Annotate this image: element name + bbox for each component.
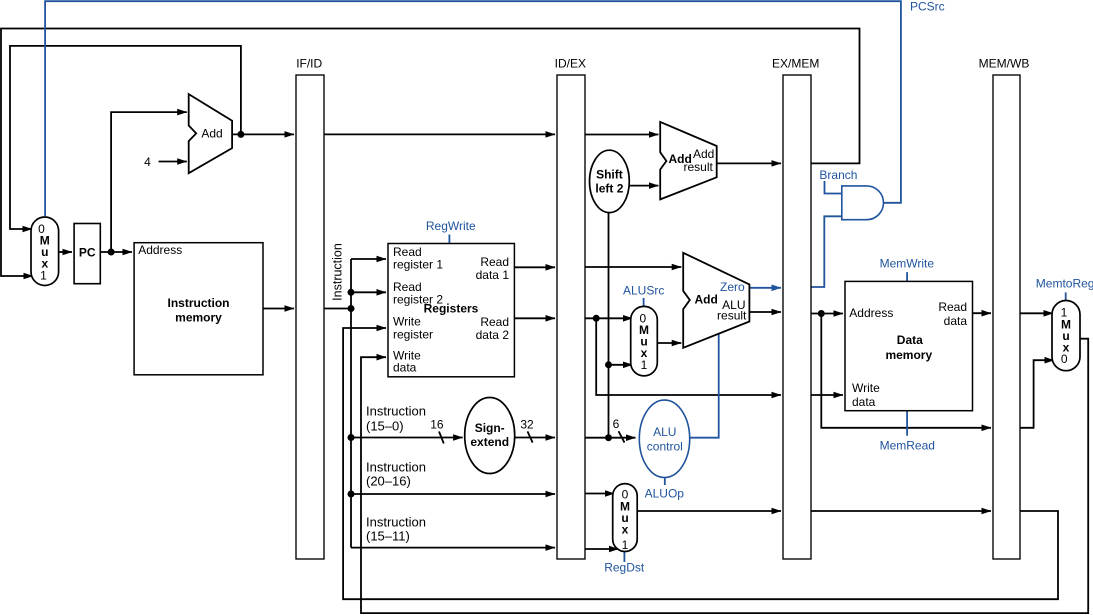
svg-text:data: data bbox=[393, 361, 417, 375]
alu main ALU bbox=[683, 253, 749, 348]
wire: Read data from MEM/WB to MemtoReg mux input 1 bbox=[1020, 312, 1053, 314]
wire: Zero from ALU to EX/MEM bbox=[749, 287, 781, 289]
svg-text:4: 4 bbox=[144, 155, 151, 169]
svg-text:ALU: ALU bbox=[653, 425, 676, 439]
control tick: ALUSrc bbox=[643, 298, 645, 307]
wire: Shift left 2 output to branch Add bbox=[629, 185, 658, 187]
svg-text:6: 6 bbox=[613, 417, 620, 431]
pipeline register IF/ID bbox=[296, 75, 324, 559]
wire: PC+4 loop back to PC mux input 0 bbox=[10, 46, 241, 229]
svg-text:Add: Add bbox=[693, 147, 714, 161]
wire: constant 4 into Add bbox=[159, 161, 187, 163]
wire: ALU result bypass down to MEM/WB bbox=[821, 314, 991, 428]
mux ALUSrc bbox=[631, 306, 658, 376]
junction dot: PC output bbox=[108, 249, 115, 256]
wire: branch Add result to EX/MEM bbox=[717, 162, 781, 164]
svg-text:1: 1 bbox=[40, 268, 47, 282]
svg-text:memory: memory bbox=[175, 310, 222, 324]
svg-text:register: register bbox=[393, 328, 433, 342]
svg-text:Instruction: Instruction bbox=[366, 514, 426, 529]
mux MemtoReg bbox=[1052, 301, 1080, 371]
wire: RegDst mux output to EX/MEM bbox=[637, 510, 781, 512]
svg-text:extend: extend bbox=[470, 435, 509, 449]
and gate (branch) bbox=[842, 186, 884, 220]
wire: write register number EX/MEM to MEM/WB bbox=[811, 510, 991, 512]
wire: Zero from EX/MEM up to AND gate bbox=[811, 216, 842, 287]
pipeline register MEM/WB bbox=[993, 75, 1020, 559]
wire: PCSrc control from AND gate around top to PC mux select bbox=[45, 1, 901, 216]
svg-text:(15–11): (15–11) bbox=[366, 528, 410, 543]
wire: ALU result from MEM/WB to MemtoReg mux input 0 bbox=[1020, 360, 1054, 428]
junction dot: instruction bus at Read register 2 bbox=[348, 289, 355, 296]
wire: instruction vertical bus bbox=[350, 259, 352, 548]
wire: Data memory Read data to MEM/WB bbox=[973, 312, 992, 314]
svg-text:result: result bbox=[717, 309, 747, 323]
wire: PC output up to Add top input bbox=[111, 112, 187, 252]
wire: immediate to ALUSrc mux input 1 bbox=[609, 364, 633, 366]
svg-text:MemWrite: MemWrite bbox=[880, 257, 935, 271]
svg-text:Data: Data bbox=[897, 333, 923, 347]
wire: PC output to Instruction memory Address bbox=[100, 251, 132, 253]
wire: Read data 2 from ID/EX to ALUSrc mux input 0 bbox=[585, 317, 633, 319]
svg-text:Instruction: Instruction bbox=[331, 243, 345, 301]
wire: Instruction memory output to IF/ID bbox=[263, 308, 294, 310]
wire: Instruction (15-11) from ID/EX to RegDst mux input 1 bbox=[585, 548, 619, 550]
wire: Add output (PC+4) to IF/ID bbox=[232, 133, 294, 135]
junction dot: ALU result at Data memory address bbox=[818, 310, 825, 317]
svg-text:left 2: left 2 bbox=[595, 182, 623, 196]
wire: PC+4 from IF/ID to ID/EX bbox=[324, 133, 555, 135]
svg-text:Instruction: Instruction bbox=[366, 404, 426, 419]
svg-text:Registers: Registers bbox=[424, 302, 479, 316]
wire: write data branch down to EX/MEM bbox=[596, 318, 781, 395]
svg-text:RegDst: RegDst bbox=[604, 561, 645, 575]
svg-text:MemtoReg: MemtoReg bbox=[1036, 276, 1093, 290]
width slash 32 bbox=[528, 431, 533, 442]
svg-text:Address: Address bbox=[849, 306, 893, 320]
control tick: RegDst bbox=[623, 552, 625, 562]
svg-text:EX/MEM: EX/MEM bbox=[772, 57, 819, 71]
junction dot: Add output bbox=[237, 131, 244, 138]
wire: PCSrc mux output to PC bbox=[58, 251, 72, 253]
svg-text:1: 1 bbox=[622, 538, 629, 552]
control tick: MemWrite bbox=[906, 272, 908, 281]
svg-text:PC: PC bbox=[79, 246, 96, 260]
wire: instruction to Read register 2 bbox=[351, 291, 386, 293]
svg-text:IF/ID: IF/ID bbox=[296, 57, 322, 71]
wire: ALUSrc mux output to ALU bbox=[657, 342, 681, 344]
pipeline register EX/MEM bbox=[783, 75, 811, 559]
memory Data memory bbox=[845, 281, 973, 410]
junction dot: instruction bus at IF/ID feed bbox=[348, 305, 355, 312]
svg-text:control: control bbox=[647, 440, 683, 454]
svg-text:32: 32 bbox=[520, 417, 534, 431]
svg-text:x: x bbox=[622, 523, 629, 537]
svg-text:16: 16 bbox=[430, 417, 444, 431]
oval Sign-extend bbox=[465, 398, 515, 474]
wire: Sign-extend output to ID/EX bbox=[515, 437, 555, 439]
oval Shift left 2 bbox=[590, 150, 630, 212]
oval ALU control bbox=[639, 400, 689, 477]
wire: Instruction (15-11) to ID/EX bbox=[351, 547, 555, 549]
register PC bbox=[74, 224, 100, 284]
svg-text:MemRead: MemRead bbox=[880, 439, 935, 453]
wire: Instruction (20-16) from ID/EX to RegDst mux input 0 bbox=[585, 493, 615, 495]
wire: branch target from EX/MEM around top to PC mux input 1 bbox=[1, 29, 860, 277]
junction dot: instruction bus at 20-16 bbox=[348, 491, 355, 498]
wire: MemtoReg mux output loop to Registers Write data bbox=[361, 339, 1088, 613]
svg-text:ID/EX: ID/EX bbox=[555, 57, 586, 71]
svg-text:register 1: register 1 bbox=[393, 258, 443, 272]
control tick: MemtoReg bbox=[1065, 292, 1067, 300]
wire: ALU result from EX/MEM to Data memory Address bbox=[811, 313, 843, 315]
wire: Instruction (20-16) to ID/EX bbox=[351, 493, 555, 495]
svg-text:Instruction: Instruction bbox=[168, 296, 230, 310]
junction dot: Read data 2 branch bbox=[593, 315, 600, 322]
width slash 6 bbox=[619, 431, 625, 442]
svg-text:data 2: data 2 bbox=[476, 328, 510, 342]
wire: write register number loop to Registers Write register bbox=[343, 328, 1058, 599]
junction dot: immediate to ALU control bbox=[605, 434, 612, 441]
svg-text:PCSrc: PCSrc bbox=[910, 0, 945, 14]
svg-text:Address: Address bbox=[138, 243, 182, 257]
svg-text:Add: Add bbox=[695, 292, 718, 306]
wire: Read data 2 to ID/EX bbox=[514, 317, 555, 319]
memory Instruction memory bbox=[134, 243, 263, 375]
svg-text:memory: memory bbox=[885, 348, 932, 362]
svg-text:data 1: data 1 bbox=[476, 268, 510, 282]
mux RegDst bbox=[613, 484, 638, 552]
svg-text:Read: Read bbox=[938, 300, 967, 314]
wire: instruction to Read register 1 bbox=[351, 258, 386, 260]
junction dot: instruction bus at 15-0 bbox=[348, 434, 355, 441]
wire: write data from EX/MEM to Data memory bbox=[811, 394, 843, 396]
wire: Read data 1 to ID/EX bbox=[514, 266, 555, 268]
register file Registers bbox=[388, 244, 514, 377]
svg-text:data: data bbox=[944, 314, 968, 328]
pipeline register ID/EX bbox=[557, 75, 585, 559]
wire: ALU result to EX/MEM bbox=[749, 311, 781, 313]
svg-text:(15–0): (15–0) bbox=[366, 419, 404, 434]
wire: ALU control output to ALU bbox=[690, 334, 719, 438]
svg-text:ALUSrc: ALUSrc bbox=[623, 283, 664, 297]
svg-text:Branch: Branch bbox=[819, 168, 857, 182]
svg-text:MEM/WB: MEM/WB bbox=[979, 57, 1030, 71]
svg-text:Add: Add bbox=[201, 127, 222, 141]
svg-text:0: 0 bbox=[1061, 352, 1068, 366]
svg-text:Sign-: Sign- bbox=[475, 421, 505, 435]
svg-text:Zero: Zero bbox=[720, 280, 745, 294]
control tick: ALUOp bbox=[664, 477, 666, 485]
svg-text:data: data bbox=[852, 395, 876, 409]
wire: vertical branch up to Shift left 2 bbox=[608, 213, 610, 438]
control tick: RegWrite bbox=[448, 235, 450, 244]
wire: Read data 1 from ID/EX to ALU bbox=[585, 266, 681, 268]
svg-text:result: result bbox=[684, 160, 714, 174]
svg-text:Write: Write bbox=[393, 315, 421, 329]
wire: sign-extended immediate from ID/EX to ALU control bbox=[585, 437, 636, 439]
wire: Branch control stub into AND gate bbox=[825, 181, 842, 194]
width slash 16 bbox=[439, 432, 444, 444]
svg-text:1: 1 bbox=[641, 358, 648, 372]
mux PC source bbox=[31, 217, 59, 286]
wire: Instruction (15-0) to Sign-extend bbox=[351, 437, 463, 439]
svg-text:Write: Write bbox=[852, 381, 880, 395]
svg-text:Shift: Shift bbox=[596, 168, 623, 182]
adder Add (branch target) bbox=[660, 122, 717, 199]
svg-text:RegWrite: RegWrite bbox=[426, 219, 476, 233]
svg-text:Read: Read bbox=[480, 255, 509, 269]
control tick: MemRead bbox=[906, 411, 908, 436]
svg-text:Read: Read bbox=[480, 315, 509, 329]
junction dot: immediate to ALUSrc mux bbox=[605, 361, 612, 368]
svg-text:(20–16): (20–16) bbox=[366, 473, 411, 488]
adder Add (PC+4) bbox=[189, 94, 232, 173]
svg-text:ALUOp: ALUOp bbox=[645, 487, 685, 501]
wire: instruction from IF/ID to vertical bus bbox=[324, 308, 351, 310]
wire: PC+4 from ID/EX to branch Add bbox=[585, 134, 658, 136]
